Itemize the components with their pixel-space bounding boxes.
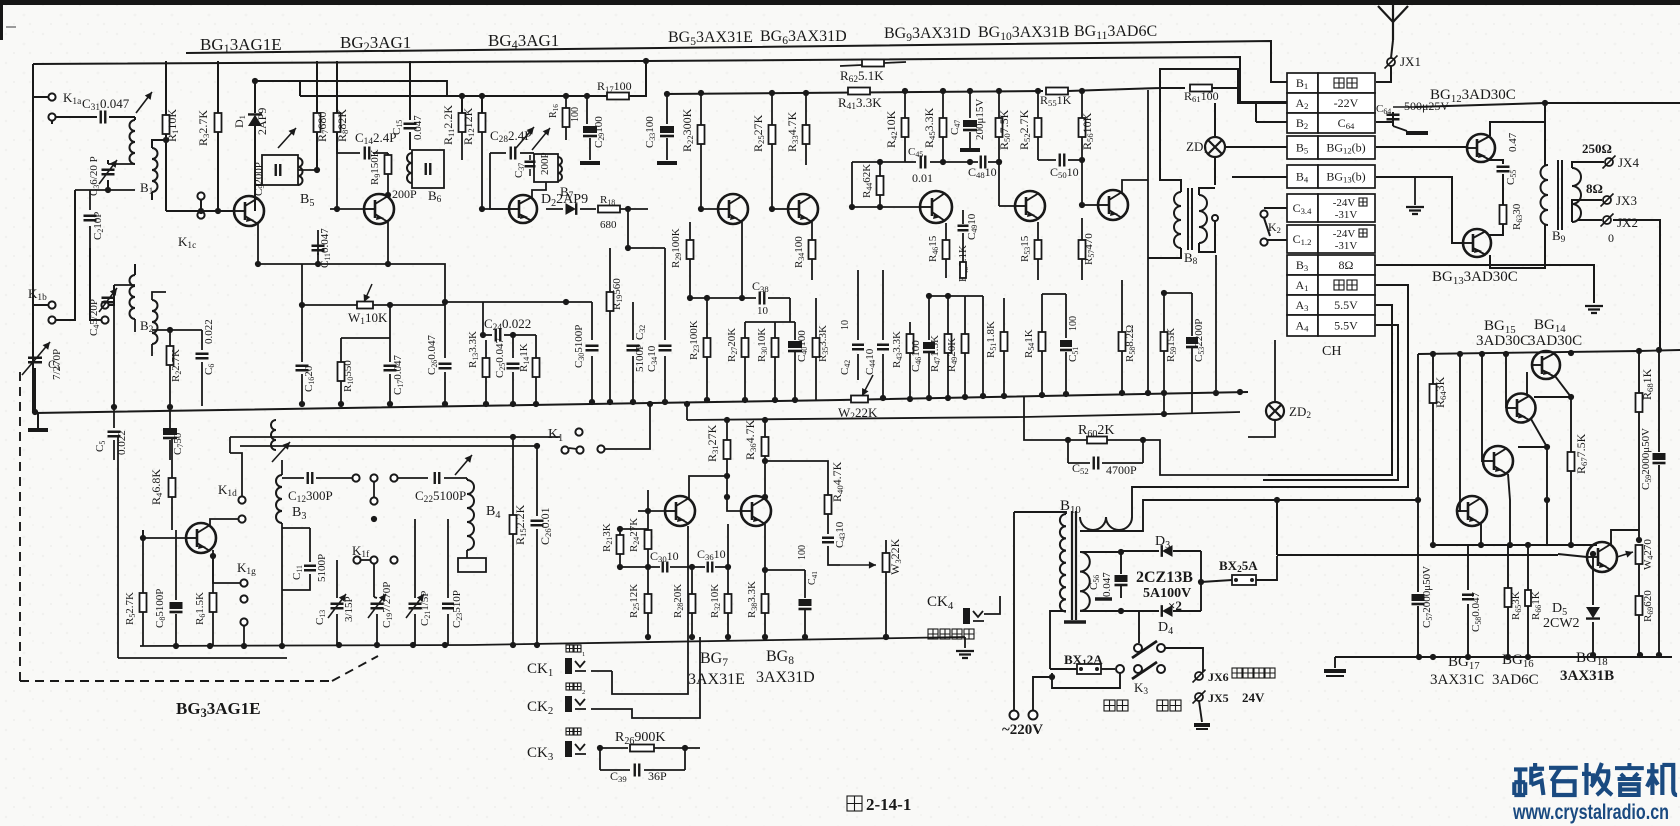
trimmer C3 6/20P (107, 160, 109, 164)
wire link y302 (445, 301, 592, 303)
capacitor C50 10 (1038, 159, 1056, 161)
verticals from upper right to bus (1147, 180, 1149, 258)
wire BG15 emitter chain (1531, 419, 1547, 447)
svg-text:C85100P: C85100P (154, 589, 167, 628)
switch K1c (197, 192, 204, 199)
transformer B1 (134, 117, 136, 120)
ground bias BG12/13 (1414, 177, 1416, 205)
capacitor C17 0.047 (341, 337, 390, 339)
wire y296 row (929, 295, 983, 297)
capacitor C7 50 (169, 406, 171, 428)
resistor R3 2.7K (217, 61, 219, 113)
wire table stubs left (1256, 121, 1287, 123)
wire BG4 collector to tank (532, 182, 546, 198)
wire R1 bottom to K1c (165, 140, 167, 211)
capacitor C53 2200P (1191, 293, 1193, 336)
svg-text:R9150K: R9150K (369, 149, 382, 185)
capacitor C51 100 (1065, 294, 1067, 338)
capacitor C23 510P (447, 519, 449, 598)
svg-text:C750: C750 (172, 432, 185, 455)
resistor R18 680 (598, 206, 620, 213)
wire rectifier right side (1200, 551, 1202, 611)
wire BG7 base bias (647, 511, 649, 529)
wire nest A4 row (1263, 325, 1398, 480)
svg-text:-22V: -22V (1334, 96, 1359, 110)
resistor R42 10K (904, 91, 906, 118)
wire HT feed y500 (1260, 499, 1417, 501)
transistor BG6 (788, 194, 818, 224)
resistor R65 3K (1507, 545, 1509, 588)
resistor R63 30 (1502, 174, 1504, 205)
resistor R34 100 (811, 222, 813, 240)
svg-text:2AP9: 2AP9 (255, 108, 269, 135)
resistor R40 4.7K (825, 495, 832, 514)
box top wires to B4 (118, 436, 255, 438)
svg-text:C225100P: C225100P (415, 488, 466, 505)
resistor R9 150K (385, 155, 392, 174)
border left mark (0, 0, 3, 40)
junction output rail (1542, 100, 1548, 106)
capacitor C40 100 (794, 322, 796, 340)
svg-text:C260.01: C260.01 (538, 507, 553, 545)
svg-text:BG133AD30C: BG133AD30C (1432, 269, 1518, 287)
wire BG14 emitter chain (1555, 376, 1571, 397)
wire LT top lead (1080, 551, 1121, 553)
wire terminals up (1013, 512, 1015, 710)
variable capacitor C1 7/270P (32, 340, 34, 352)
capacitor C52 4700P (1067, 440, 1069, 463)
wire JX1 to table B1 row (1376, 66, 1391, 82)
svg-text:R404.7K: R404.7K (830, 461, 845, 502)
wire R26 node up (685, 718, 700, 748)
wire B10 primary leads (1014, 512, 1066, 514)
svg-text:R681K: R681K (1640, 368, 1655, 400)
transformer B10 primary winding (1060, 514, 1066, 612)
resistor R66 1K (1527, 545, 1529, 590)
capacitor C22 5100P (398, 477, 428, 479)
capacitor C36 10 (708, 562, 713, 573)
svg-text:R23100K: R23100K (688, 320, 701, 360)
wire nest A1 row (1263, 285, 1408, 487)
wire rail to BG17 base (1457, 354, 1460, 511)
oscillator box left wall (117, 437, 119, 658)
svg-text:R52.7K: R52.7K (124, 592, 137, 625)
capacitor C48 10 (981, 156, 986, 169)
svg-text:W322K: W322K (888, 538, 903, 575)
wire CK1 to preamp (591, 529, 680, 690)
svg-text:3AX31C: 3AX31C (1430, 672, 1484, 688)
capacitor C30b 10 (620, 566, 630, 568)
resistor R56 10K (1081, 91, 1083, 118)
wire BG3 collector (210, 510, 241, 526)
svg-text:250Ω: 250Ω (1582, 141, 1612, 156)
resistor R12 12K (481, 96, 483, 113)
svg-text:R471.5K: R471.5K (929, 335, 942, 372)
svg-text:10: 10 (840, 320, 851, 330)
wire B9 center tap supply (1544, 103, 1546, 165)
capacitor C64 500u25V (1392, 112, 1394, 122)
svg-text:R22300K: R22300K (680, 108, 695, 152)
svg-text:R152.2K: R152.2K (513, 504, 528, 545)
wire BG13 collector to B9 bottom (1490, 225, 1545, 268)
svg-text:R522.7K: R522.7K (1017, 109, 1032, 150)
svg-text:3/15P: 3/15P (343, 596, 355, 622)
ground audio bus end (964, 637, 966, 648)
wire K1d up (230, 453, 242, 496)
wire CK2 wiring (591, 700, 680, 709)
wire K3 to JX6 (1165, 648, 1203, 672)
trimmer C21 1/5P (414, 560, 416, 598)
jack JX6 (1195, 672, 1203, 680)
resistor R33 4.7K (805, 93, 807, 125)
capacitor C55 0.47 (1489, 160, 1503, 164)
resistor R21 3K (619, 529, 621, 535)
capacitor C37 200P (525, 162, 536, 167)
wire tank to R7 rail (298, 169, 317, 171)
svg-text:R2820K: R2820K (672, 584, 685, 618)
coil B3 (276, 475, 282, 523)
capacitor C39 36P (599, 748, 601, 770)
capacitor C16 20 (301, 305, 303, 362)
svg-text:200P: 200P (392, 187, 417, 201)
svg-text:R4920K: R4920K (946, 338, 959, 372)
wire BG12 collector to B9 (1490, 122, 1545, 165)
wire BG7 collector to R31 (689, 488, 727, 499)
wire BG18 base (1558, 554, 1587, 557)
wire B3 bottom to bus (281, 590, 283, 646)
resistor R8 82K (336, 61, 338, 113)
transistor BG1 (234, 196, 264, 226)
svg-text:R383.3K: R383.3K (746, 581, 759, 618)
jack JX1 (1391, 40, 1393, 58)
svg-text:CH: CH (1322, 344, 1341, 359)
svg-text:100: 100 (797, 545, 808, 560)
wire BG8 collector (764, 497, 766, 499)
svg-text:R364.7K: R364.7K (743, 419, 758, 460)
wire branch R61 to ZD1 rail (1160, 87, 1185, 89)
svg-text:R5610K: R5610K (1080, 112, 1095, 150)
svg-text:R22.7K: R22.7K (170, 349, 183, 382)
wire y264 link (260, 263, 388, 265)
capacitor C57 2000u50V (1412, 594, 1425, 601)
svg-text:JX5: JX5 (1208, 691, 1229, 705)
wire rail to BG15 base (1505, 354, 1507, 408)
svg-text:R69620: R69620 (1642, 590, 1655, 622)
svg-text:R10550: R10550 (342, 360, 355, 392)
wire BG17 emitter down (1480, 524, 1482, 545)
resistor R5 2.7K (142, 530, 144, 593)
svg-text:R4462K: R4462K (861, 164, 874, 198)
resistor R62 5.1K (840, 65, 862, 66)
wire audio ground bus (470, 637, 965, 645)
svg-text:BG33AG1E: BG33AG1E (176, 699, 261, 720)
svg-text:4700P: 4700P (1106, 463, 1137, 477)
jack JX5 (1195, 693, 1203, 701)
svg-text:100: 100 (1068, 316, 1079, 331)
svg-text:R643K: R643K (1433, 376, 1448, 408)
switch K3 (1134, 644, 1142, 652)
jack JX2 (1603, 216, 1611, 224)
svg-text:2-14-1: 2-14-1 (866, 795, 911, 814)
svg-text:R507.5K: R507.5K (997, 109, 1012, 150)
capacitor C11b 5100P loop (282, 528, 310, 561)
svg-text:C170.047: C170.047 (392, 355, 405, 396)
svg-text:R1212K: R1212K (461, 107, 476, 145)
svg-text:W4270: W4270 (1642, 539, 1655, 570)
svg-text:R19560: R19560 (611, 278, 624, 310)
svg-text:~220V: ~220V (1002, 722, 1043, 738)
svg-text:R5915K: R5915K (1165, 328, 1178, 362)
wire B4 bottom loop (466, 550, 468, 558)
svg-text:R3010K: R3010K (756, 328, 769, 362)
svg-text:C29100: C29100 (593, 116, 606, 148)
capacitor C12 300P (282, 459, 300, 461)
svg-text:C45/20P: C45/20P (88, 299, 101, 336)
resistor R13 3.3K (485, 335, 487, 358)
resistor R52 2.7K (1037, 91, 1039, 118)
svg-text:10: 10 (757, 305, 769, 317)
wire nest right of bus (1239, 392, 1241, 412)
transistor BG5 (718, 194, 748, 224)
transistor BG4 (509, 195, 537, 223)
capacitor C46 100 (928, 296, 930, 340)
transistor BG11 (1098, 190, 1128, 220)
resistor R1 10K (165, 110, 167, 115)
svg-text:C305100P: C305100P (573, 325, 586, 368)
wire nest A3 row (1268, 305, 1392, 475)
pot W1 10K (301, 264, 303, 305)
wire rail to BG16 base (1482, 354, 1483, 461)
svg-text:C33100: C33100 (644, 116, 657, 148)
resistor R25 27K (771, 93, 773, 125)
svg-text:R453.3K: R453.3K (922, 107, 937, 148)
svg-text:C250.047: C250.047 (494, 338, 507, 379)
svg-text:R7680: R7680 (315, 112, 330, 142)
svg-text:7/270P: 7/270P (51, 349, 63, 380)
transistor BG10 (1015, 191, 1045, 221)
diode D1 2AP9 (254, 81, 256, 110)
svg-text:0.01: 0.01 (912, 171, 933, 185)
wire CK4 right (935, 596, 1000, 611)
svg-text:-31V: -31V (1335, 240, 1358, 252)
svg-text:R2720K: R2720K (726, 328, 739, 362)
resistor R53 15 (1037, 222, 1039, 240)
wire BG11 collector right (1122, 180, 1148, 193)
svg-text:R17100: R17100 (597, 79, 632, 94)
svg-text:C40100: C40100 (796, 330, 809, 362)
wire BG3 emitter (212, 550, 214, 556)
wire BG18 collector up (1611, 530, 1639, 545)
svg-text:R4210K: R4210K (884, 110, 899, 148)
svg-text:BG103AX31B: BG103AX31B (978, 24, 1070, 43)
zener ZD2 (1266, 402, 1284, 420)
svg-text:R413.3K: R413.3K (838, 95, 882, 112)
svg-text:C110.047: C110.047 (319, 228, 332, 268)
svg-text:R541K: R541K (1023, 329, 1036, 358)
transistor BG18 (1587, 542, 1617, 572)
wire JX2 tap down right rail (1613, 220, 1660, 350)
svg-text:BG53AX31E: BG53AX31E (668, 29, 753, 48)
svg-text:R551K: R551K (1040, 93, 1072, 108)
resistor R54 1K (1041, 294, 1043, 332)
wire coupling top loop (281, 415, 283, 420)
svg-text:2CW2: 2CW2 (1543, 616, 1580, 631)
second bottom line (1277, 554, 1558, 556)
svg-text:BG63AX31D: BG63AX31D (760, 28, 847, 47)
tank B5 (255, 155, 262, 185)
svg-text:5100P: 5100P (634, 344, 646, 372)
resistor R38 3.3K (764, 524, 766, 594)
wire audio supply y420 (686, 404, 688, 420)
capacitor C30 5100P (591, 302, 593, 340)
wire BX1 bypass loop (1052, 673, 1120, 688)
transformer B10 core (1072, 511, 1076, 620)
transformer B10 LT winding (1080, 552, 1090, 611)
svg-text:24V: 24V (1242, 690, 1265, 705)
svg-text:R32.7K: R32.7K (196, 110, 211, 146)
wire bus3 left branch down to B5 area (255, 81, 300, 113)
resistor R17 100 (607, 93, 629, 100)
svg-text:www.crystalradio.cn: www.crystalradio.cn (1512, 801, 1669, 824)
wire ZD2 rail (1274, 340, 1276, 402)
svg-text:3AD6C: 3AD6C (1492, 672, 1539, 688)
watermark CJK logo (1514, 763, 1544, 795)
capacitor C8 5100P (175, 530, 177, 600)
svg-text:R2527K: R2527K (751, 114, 766, 152)
resistor R10 550 (340, 338, 342, 362)
svg-text:C260.047: C260.047 (426, 335, 439, 376)
wire BG1 emitter down (257, 224, 259, 264)
svg-text:-24V: -24V (1333, 228, 1356, 240)
svg-text:C580.047: C580.047 (1470, 592, 1483, 633)
resistor R15 2.2K (512, 437, 514, 515)
bottom bus of amp (1433, 544, 1597, 546)
wire K1 wiring (583, 404, 592, 432)
resistor R55 1K (1046, 88, 1068, 95)
pot W4 270 (1636, 545, 1643, 564)
wire top bus 1 (label row) to table B1 (186, 41, 1287, 82)
svg-text:JX3: JX3 (1616, 193, 1637, 208)
wire B2 leads (152, 292, 166, 300)
wire C1 to mid bus and ground (34, 368, 36, 413)
wire mixer out down (628, 209, 648, 248)
svg-text:R141K: R141K (518, 343, 531, 372)
svg-text:R661K: R661K (1530, 591, 1543, 620)
trimmer C13 3/15P (336, 560, 338, 598)
capacitor C33 100 electrolytic (666, 94, 668, 124)
wire B9 secondary taps to jacks (1572, 162, 1604, 168)
resistor R64 3K (1432, 354, 1434, 384)
resistor R47 1.5K (947, 296, 949, 334)
svg-text:R2512K: R2512K (628, 584, 641, 618)
capacitor C42 10 (857, 270, 859, 340)
svg-text:R334.7K: R334.7K (785, 111, 800, 152)
transistor BG12 (1376, 146, 1467, 148)
transistor BG15 (1507, 394, 1536, 423)
capacitor C58 0.047 (1467, 545, 1469, 590)
svg-text:200μ15V: 200μ15V (974, 99, 986, 140)
svg-text:C210P: C210P (92, 212, 105, 240)
capacitor C41 100 (804, 570, 806, 598)
svg-text:R110K: R110K (165, 109, 180, 142)
resistor R36 4.7K (762, 437, 769, 456)
wire R64 to bottom rail (1432, 545, 1434, 657)
capacitor C38 10 (690, 297, 756, 299)
svg-text:C46100: C46100 (910, 340, 923, 372)
transistor BG7 (665, 496, 695, 526)
svg-text:R57470: R57470 (1083, 233, 1096, 265)
switch K1a (48, 93, 55, 100)
junction bus1/x646 (643, 58, 649, 64)
wire left wall of amp to nest (1417, 354, 1419, 592)
svg-text:0.022: 0.022 (203, 319, 215, 344)
svg-text:R2427K: R2427K (628, 518, 641, 552)
svg-text:R511.8K: R511.8K (985, 321, 998, 358)
resistor R68 1K (1638, 351, 1640, 393)
resistor R24 27K (647, 490, 649, 530)
svg-text:R3210K: R3210K (709, 584, 722, 618)
capacitor C34 10 (664, 248, 666, 340)
svg-text:5.5V: 5.5V (1334, 319, 1358, 333)
resistor R59 15K (1163, 293, 1165, 332)
svg-text:500μ25V: 500μ25V (1404, 99, 1449, 113)
wire bus3 with R17 segment (300, 95, 607, 97)
resistor R16 100 (565, 96, 567, 108)
resistor R6 1.5K (212, 556, 214, 593)
pot W3 22K (840, 564, 876, 566)
diode D4 (1123, 610, 1159, 612)
svg-text:C532200P: C532200P (1193, 319, 1206, 362)
wire y162 node row (852, 161, 905, 163)
capacitor C59 2000u50V (1658, 350, 1660, 452)
svg-text:680: 680 (600, 219, 617, 231)
wire C34 to mixer (648, 247, 665, 249)
svg-text:R588.2Ω: R588.2Ω (1124, 325, 1137, 362)
svg-text:R625.1K: R625.1K (840, 68, 884, 85)
svg-text:W110K: W110K (348, 310, 388, 327)
wire rail after R55 to x1160 up to y69 and right (1068, 69, 1287, 103)
svg-text:36P: 36P (648, 769, 667, 783)
svg-text:R46.8K: R46.8K (149, 469, 164, 505)
wire CK contacts right (586, 637, 620, 661)
wire K1 down to audio (580, 454, 620, 529)
transformer B9 (1541, 165, 1548, 225)
resistor R41 3.3K (840, 91, 852, 93)
svg-text:R213K: R213K (601, 523, 614, 552)
wire BG16 emitter down (1508, 474, 1510, 545)
transformer B10 HT winding (1080, 517, 1132, 530)
svg-text:R29100K: R29100K (670, 228, 683, 268)
tank B6 (412, 150, 444, 188)
dashed gang line (19, 372, 21, 681)
svg-text:1: 1 (582, 651, 585, 658)
resistor R46 15 (945, 223, 947, 240)
jack JX4 (1605, 158, 1613, 166)
resistor R25b 12K (647, 567, 649, 594)
svg-text:BG113AD6C: BG113AD6C (1074, 23, 1157, 42)
svg-text:2: 2 (582, 689, 585, 696)
wire top bus 2 (33, 57, 1287, 102)
switch K1e upper right (352, 474, 359, 481)
variable cap C19 7/270P (373, 597, 375, 598)
resistor R43 3.3K (909, 322, 911, 334)
wire bus y646 (140, 645, 470, 646)
transistor BG16 (1483, 446, 1513, 476)
label AC DC (1104, 700, 1115, 711)
ground speaker return (1585, 306, 1603, 313)
wire BG15 collector to BG14 base (1526, 372, 1528, 394)
transistor BG17 (1457, 496, 1487, 526)
